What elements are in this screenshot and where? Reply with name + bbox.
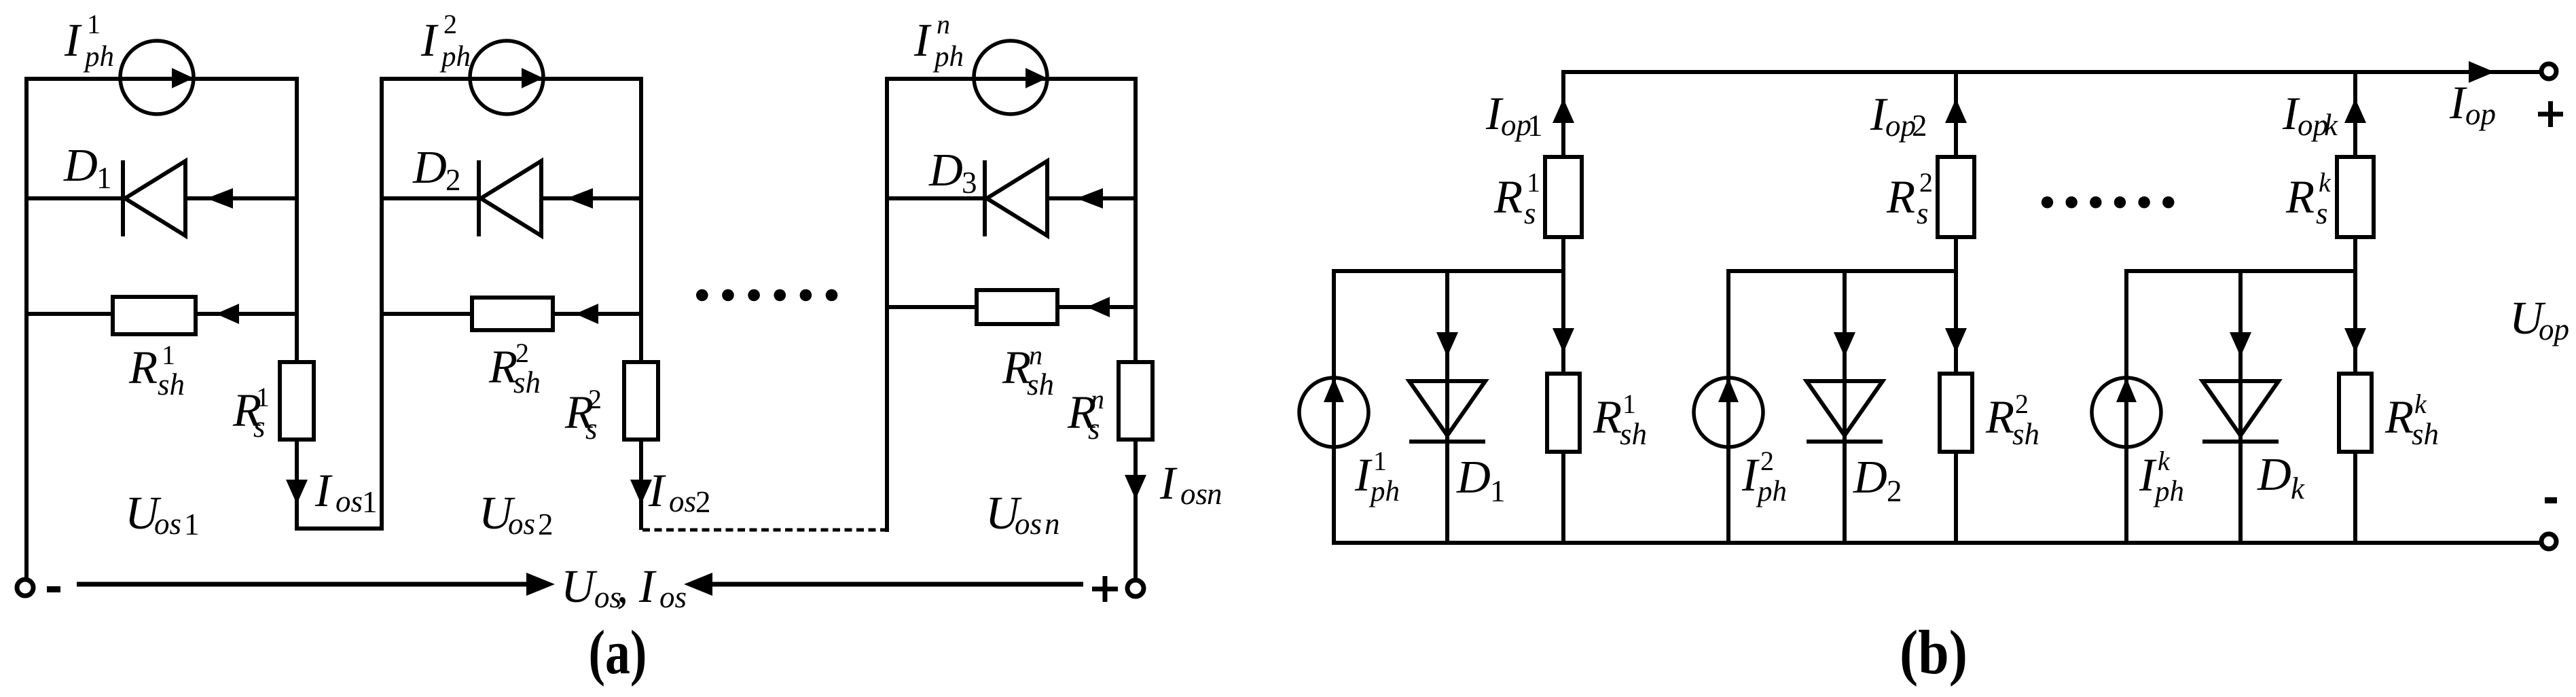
wire: diode D2 cathode lead (541, 196, 643, 200)
svg-text:k: k (2319, 167, 2332, 198)
wire: R_s^1 bottom lead with I_os1 arrow (295, 442, 299, 529)
svg-text:I: I (64, 14, 82, 66)
svg-text:D: D (2257, 448, 2291, 500)
wire: dashed series link cell2->cell3 (642, 529, 887, 532)
wire: diode D3 cathode lead (1047, 196, 1138, 200)
diode D2 cathode bar (477, 160, 481, 236)
terminal: positive output node (a) (1127, 580, 1144, 596)
svg-text:op: op (2539, 312, 2569, 346)
label: minus sign (a) (47, 586, 60, 592)
resistor R_s^1 (b) (1545, 157, 1582, 237)
svg-text:os: os (508, 507, 535, 541)
svg-text:ph: ph (1368, 476, 1400, 507)
terminal: negative output node (b) (2541, 534, 2556, 549)
resistor R_sh^3 (977, 290, 1057, 324)
terminal: positive output node (b) (2541, 64, 2556, 79)
wire: R_sh^k lower lead (b) (2353, 454, 2357, 543)
svg-text:n: n (1045, 507, 1060, 541)
svg-text:1: 1 (1373, 446, 1387, 476)
svg-text:ph: ph (439, 41, 471, 73)
svg-text:2: 2 (695, 485, 711, 519)
wire: R_sh^1 branch cell 1 (b) (1561, 271, 1565, 372)
svg-text:n: n (1029, 340, 1042, 370)
wire: cell 1 right rail (a) (295, 77, 299, 360)
wire: diode D3 anode lead (887, 196, 983, 200)
wire: R_sh^2 branch cell 2 (b) (1954, 271, 1958, 372)
svg-text:2: 2 (446, 163, 461, 197)
resistor R_sh^2 (b) (1940, 374, 1972, 452)
wire: R_sh^2 left lead (382, 312, 470, 316)
svg-text:sh: sh (513, 365, 541, 399)
diode Dk cathode bar (b) (2202, 440, 2279, 444)
svg-text:(b): (b) (1900, 618, 1967, 687)
wire: R_sh^1 right lead (198, 312, 299, 316)
svg-text:R: R (1985, 391, 2014, 443)
wire: R_sh^k branch cell k (b) (2353, 271, 2357, 372)
wire: bottom bus (b) (1332, 541, 2540, 545)
diode D1 triangle (b) (1409, 381, 1485, 435)
wire: R_s^2 bottom lead with I_os2 arrow (639, 442, 643, 530)
diode D2 cathode bar (b) (1807, 440, 1883, 444)
wire: current source branch cell k (b) (2124, 271, 2128, 543)
resistor R_sh^2 (472, 298, 553, 330)
wire: diode branch cell k (b) (2238, 271, 2243, 543)
svg-text:I: I (1354, 449, 1373, 501)
svg-text:1: 1 (184, 507, 200, 541)
label: minus sign (b) (2545, 497, 2557, 503)
svg-text:1: 1 (1490, 474, 1506, 508)
svg-text:k: k (2291, 471, 2305, 505)
svg-text:1: 1 (256, 382, 270, 412)
wire: cell 2 right rail (a) (639, 77, 643, 360)
wire: diode branch cell 2 (b) (1843, 271, 1847, 543)
svg-text:2: 2 (538, 507, 554, 541)
wire: I_op1 branch from top bus (1561, 72, 1565, 155)
resistor R_sh^1 (113, 297, 196, 334)
wire: I_opk branch from top bus (2353, 72, 2357, 155)
wire: R_sh^1 left lead (26, 312, 111, 316)
svg-text:D: D (928, 144, 963, 196)
resistor R_sh^1 (b) (1547, 374, 1580, 452)
svg-text:3: 3 (962, 166, 977, 200)
svg-text:1: 1 (362, 485, 378, 519)
svg-text:os: os (335, 484, 363, 518)
diode D1 cathode bar (b) (1409, 440, 1485, 444)
svg-text:s: s (2316, 196, 2328, 230)
wire: series link cell1->cell2 (295, 526, 384, 531)
svg-text:op: op (2465, 97, 2496, 131)
svg-text:(a): (a) (589, 618, 647, 687)
ellipsis dots between cell 2 and cell n (a) (696, 289, 837, 302)
wire: diode D1 anode lead (26, 196, 122, 200)
wire: cell 3 top rail (a) (887, 77, 1136, 81)
label: plus sign (b) (2538, 101, 2563, 127)
svg-text:sh: sh (158, 368, 185, 401)
svg-text:I: I (1741, 449, 1760, 501)
wire: diode branch cell 1 (b) (1445, 271, 1449, 543)
svg-text:k: k (2158, 446, 2171, 476)
wire: R_sh^3 left lead (887, 305, 975, 309)
svg-text:R: R (2285, 171, 2315, 223)
svg-text:R: R (1493, 171, 1523, 223)
wire: R_s^2 lower lead (b) (1954, 239, 1958, 273)
resistor R_s^2 (b) (1938, 157, 1974, 237)
wire: R_s^3 bottom lead with I_osn arrow (1133, 442, 1138, 579)
svg-text:I: I (2449, 77, 2467, 128)
wire: diode D1 cathode lead (185, 196, 299, 200)
wire: R_s^1 lower lead (b) (1561, 239, 1565, 273)
resistor R_s^2 (624, 362, 658, 440)
diode D3 triangle (987, 161, 1047, 236)
current source I_ph^3 (974, 41, 1047, 114)
diode D3 cathode bar (983, 160, 987, 236)
svg-text:,: , (617, 560, 628, 612)
svg-text:s: s (1917, 196, 1929, 230)
svg-text:2: 2 (443, 9, 457, 39)
svg-text:sh: sh (2012, 417, 2039, 451)
wire: cell 2 left rail (a) (380, 77, 384, 531)
svg-text:2: 2 (1760, 446, 1774, 476)
svg-text:1: 1 (1622, 389, 1636, 419)
current source I_ph^k (b) (2092, 378, 2161, 447)
svg-text:D: D (412, 141, 447, 193)
svg-text:2: 2 (1919, 167, 1933, 198)
terminal: negative output node (a) (17, 579, 33, 596)
svg-text:k: k (2414, 389, 2427, 419)
resistor R_s^3 (1119, 362, 1153, 440)
svg-text:I: I (638, 560, 657, 612)
svg-text:I: I (314, 465, 333, 516)
svg-text:n: n (937, 9, 950, 39)
svg-text:R: R (128, 342, 158, 393)
wire: diode D2 anode lead (382, 196, 477, 200)
svg-text:os: os (669, 484, 696, 518)
wire: I_op2 branch from top bus (1954, 72, 1958, 155)
wire: cell 1 top rail (a) (26, 77, 297, 81)
wire: current source branch cell 2 (b) (1726, 271, 1730, 543)
annotation arrow: U_os left (a) (77, 582, 529, 587)
svg-text:ph: ph (932, 41, 964, 73)
svg-text:D: D (63, 139, 98, 191)
svg-text:1: 1 (96, 161, 112, 195)
svg-text:2: 2 (588, 384, 602, 414)
svg-text:I: I (648, 465, 666, 516)
wire: cell k branch rail (b) (2124, 269, 2357, 273)
wire: positive terminal lead (a) (1133, 442, 1138, 579)
svg-text:n: n (1091, 384, 1104, 414)
annotation arrow: I_os right (a) (708, 582, 1083, 587)
svg-text:os: os (1180, 477, 1208, 511)
svg-text:s: s (1088, 412, 1100, 446)
diode D1 cathode bar (121, 160, 125, 236)
wire: R_s^k lower lead (b) (2353, 239, 2357, 273)
svg-text:2: 2 (2015, 389, 2029, 419)
diode D2 triangle (b) (1807, 381, 1883, 435)
svg-text:D: D (1853, 451, 1887, 503)
wire: cell 3 left rail (a) (885, 77, 889, 532)
svg-text:s: s (585, 412, 598, 446)
svg-text:os: os (1015, 507, 1042, 541)
wire: R_sh^3 right lead (1059, 305, 1138, 309)
wire: cell 2 top rail (a) (382, 77, 641, 81)
wire: current source branch cell 1 (b) (1332, 271, 1336, 543)
annotation arrow: I_op on top bus (b) (2469, 61, 2495, 83)
svg-text:k: k (2324, 108, 2338, 142)
wire: cell 1 left rail (a) (24, 77, 29, 579)
svg-text:ph: ph (83, 41, 114, 73)
svg-text:2: 2 (1887, 474, 1902, 508)
wire: R_sh^1 lower lead (b) (1561, 454, 1565, 543)
svg-text:U: U (561, 560, 598, 612)
svg-text:1: 1 (87, 9, 101, 39)
svg-text:sh: sh (2412, 417, 2439, 451)
wire: top bus (b) (1561, 70, 2540, 74)
svg-text:I: I (2139, 449, 2157, 501)
wire: cell 2 branch rail (b) (1726, 269, 1958, 273)
resistor R_s^1 (280, 362, 314, 440)
svg-text:os: os (659, 580, 687, 614)
diode Dk triangle (b) (2202, 381, 2279, 435)
svg-text:I: I (913, 14, 932, 66)
wire: cell 1 branch rail (b) (1332, 269, 1565, 273)
wire: R_sh^2 right lead (555, 312, 643, 316)
svg-text:I: I (1159, 457, 1178, 509)
wire: cell 3 right rail (a) (1133, 77, 1138, 360)
current source I_ph^1 (b) (1299, 378, 1368, 447)
svg-text:ph: ph (1756, 476, 1787, 507)
svg-text:sh: sh (1027, 368, 1054, 401)
label: plus sign (a) (1092, 576, 1118, 602)
resistor R_s^k (b) (2337, 157, 2374, 237)
svg-text:n: n (1207, 477, 1222, 511)
current source I_ph^2 (b) (1694, 378, 1763, 447)
svg-text:R: R (1886, 171, 1915, 223)
current source I_ph^1 (120, 41, 194, 114)
svg-text:1: 1 (162, 340, 175, 370)
wire: R_sh^2 lower lead (b) (1954, 454, 1958, 543)
svg-text:os: os (154, 507, 181, 541)
svg-text:2: 2 (515, 338, 529, 368)
svg-text:s: s (253, 410, 266, 444)
svg-text:2: 2 (1912, 109, 1927, 143)
diode D1 triangle (125, 161, 185, 236)
diode D2 triangle (481, 161, 541, 236)
svg-text:1: 1 (1527, 167, 1540, 198)
svg-text:sh: sh (1620, 417, 1647, 451)
svg-text:I: I (420, 14, 439, 66)
svg-text:s: s (1524, 196, 1536, 230)
svg-text:1: 1 (1527, 109, 1543, 143)
svg-text:R: R (1593, 391, 1622, 443)
svg-text:ph: ph (2153, 476, 2184, 507)
resistor R_sh^k (b) (2339, 374, 2372, 452)
svg-text:R: R (2384, 391, 2414, 443)
svg-text:D: D (1456, 451, 1491, 503)
current source I_ph^2 (470, 41, 543, 114)
ellipsis dots between cell 2 and cell k (b) (2042, 196, 2175, 208)
